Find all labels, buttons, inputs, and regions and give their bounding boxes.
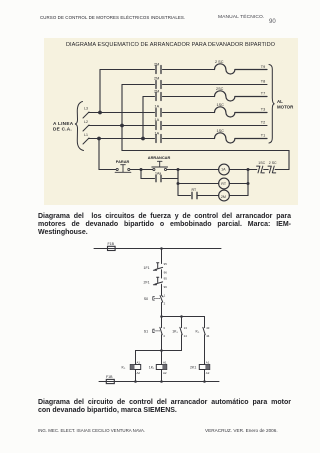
heater 1SC line6 [214, 133, 267, 143]
contact 2F1 [153, 277, 162, 285]
connector horizontal above coils [136, 350, 182, 352]
svg-text:14: 14 [184, 334, 188, 338]
coil 1K1 box [156, 365, 166, 370]
wire 1F1 to 2F1 [161, 270, 163, 278]
svg-text:F1B: F1B [108, 242, 115, 246]
svg-text:1A: 1A [154, 105, 159, 109]
contact 1A line6 [156, 135, 161, 143]
motor brace [269, 65, 275, 144]
svg-text:F1B: F1B [106, 375, 113, 379]
footer left [38, 428, 145, 433]
svg-text:2SC: 2SC [216, 87, 224, 91]
contact K5 aux [203, 317, 205, 365]
contact 1Aa bars [156, 175, 161, 181]
wire line6 L1 [88, 138, 214, 140]
arrancar bridge and stem [151, 161, 167, 167]
svg-text:2M: 2M [154, 90, 159, 94]
svg-text:RT: RT [191, 188, 196, 192]
contact 2M line1 [156, 66, 161, 74]
wire arrancar to coil 1A [166, 169, 218, 171]
svg-text:A1: A1 [163, 361, 167, 365]
contact RT bars [192, 192, 197, 198]
svg-text:A2: A2 [206, 371, 210, 375]
overload rung [248, 169, 289, 171]
wire 2F1 to S0 [161, 284, 163, 295]
coil outputs to bus [229, 170, 248, 196]
svg-text:1Aa: 1Aa [155, 172, 161, 176]
footer right [205, 428, 278, 433]
bottom rail F1B [99, 381, 219, 383]
wire line4 L3 [88, 112, 214, 114]
control rail to L2 [122, 126, 289, 170]
wire S0 down to junction [161, 302, 163, 316]
svg-text:96: 96 [164, 270, 168, 274]
coil 2K1 box [199, 365, 209, 370]
contact 1F1 [153, 263, 162, 271]
svg-text:96: 96 [164, 285, 168, 289]
svg-text:K₅: K₅ [122, 366, 126, 370]
parar button contacts [116, 168, 118, 170]
contact S1 start button [160, 317, 162, 351]
riser L1 to line3 [142, 97, 144, 139]
switch blade L2 [83, 125, 89, 131]
svg-text:1SC: 1SC [216, 129, 224, 133]
contact 1A line5 [156, 122, 161, 130]
svg-text:K₅: K₅ [196, 329, 200, 333]
caption 2 [38, 399, 291, 407]
svg-text:4: 4 [163, 334, 165, 338]
svg-text:1A: 1A [221, 168, 226, 172]
svg-text:43: 43 [206, 326, 210, 330]
caption 1 [38, 213, 291, 237]
svg-text:L1: L1 [84, 133, 88, 137]
svg-text:1F1: 1F1 [144, 266, 150, 270]
svg-text:A1: A1 [137, 361, 141, 365]
svg-text:S0: S0 [144, 297, 148, 301]
brace a linea [75, 102, 84, 151]
svg-text:13: 13 [184, 326, 188, 330]
wire line3 [143, 96, 215, 98]
svg-text:T3: T3 [260, 108, 264, 112]
svg-text:L2: L2 [84, 120, 88, 124]
svg-text:1K₁: 1K₁ [172, 329, 178, 333]
svg-text:1A: 1A [154, 131, 159, 135]
svg-text:3: 3 [163, 326, 165, 330]
top rail F1B [94, 248, 221, 250]
diagram 1 title [44, 42, 298, 48]
svg-text:L3: L3 [84, 106, 88, 110]
branch horizontal to aux contacts [162, 316, 205, 318]
svg-text:S1: S1 [144, 329, 148, 333]
contact 1K1 aux [180, 317, 182, 351]
wire line1 after contact [162, 69, 214, 71]
svg-text:2 SC: 2 SC [268, 161, 276, 165]
vertical to RT and 2M branches [177, 170, 179, 196]
wire line5 L2 to T2 [88, 125, 267, 127]
svg-text:A1: A1 [206, 361, 210, 365]
svg-text:RT: RT [221, 182, 227, 186]
switch blade L1 [83, 138, 89, 144]
svg-text:2: 2 [164, 301, 166, 305]
heater 1SC line4 [214, 107, 267, 117]
wire line2 to T8 [122, 84, 267, 86]
heater 2SC line1 [214, 64, 267, 74]
svg-text:2M: 2M [154, 77, 159, 81]
svg-text:1SC: 1SC [216, 103, 224, 107]
svg-text:PARAR: PARAR [115, 159, 129, 164]
svg-text:1A: 1A [154, 118, 159, 122]
svg-text:ARRANCAR: ARRANCAR [147, 155, 170, 160]
control tap from L1 [99, 139, 116, 170]
fuse F1B top [108, 246, 116, 250]
header right text [218, 15, 264, 20]
contact 1A line4 [156, 109, 161, 117]
svg-text:2K1: 2K1 [190, 366, 196, 370]
coil RT [218, 178, 229, 189]
contact S0 stop button [160, 295, 163, 302]
OL contact 2SC [268, 166, 276, 173]
svg-text:1: 1 [164, 293, 166, 297]
coil 1K1 wire [161, 351, 163, 382]
coil 2M [218, 190, 229, 201]
main vertical from rail [161, 249, 163, 264]
wire parar to arrancar [130, 169, 153, 171]
svg-text:2 SC: 2 SC [215, 60, 224, 64]
svg-text:44: 44 [206, 334, 210, 338]
riser L3 to line1 [99, 70, 101, 113]
svg-text:T7: T7 [260, 92, 264, 96]
S1 actuator [153, 329, 155, 332]
svg-text:1SC: 1SC [258, 161, 265, 165]
arrancar button contacts [152, 168, 154, 170]
svg-text:T2: T2 [260, 121, 264, 125]
svg-text:DE C.A.: DE C.A. [53, 126, 72, 131]
contact 2M line3 [156, 93, 161, 101]
svg-text:A2: A2 [163, 371, 167, 375]
junction dots diagram2 [134, 247, 206, 383]
page number 90 [269, 19, 276, 25]
header left text [40, 15, 185, 20]
svg-text:95: 95 [164, 262, 168, 266]
branch 2M coil wire [178, 195, 219, 197]
coil 2K1 wire [204, 370, 206, 382]
parar bridge and stem [115, 165, 131, 173]
riser L2 to line2 [121, 85, 123, 126]
wire line1 2M to T9 [100, 69, 155, 71]
svg-text:A2: A2 [137, 371, 141, 375]
coil 1A [218, 164, 229, 175]
svg-text:T8: T8 [260, 80, 264, 84]
coil K5 box [130, 365, 140, 370]
fuse F1B bottom [106, 379, 114, 383]
OL contact 1SC [256, 166, 264, 173]
svg-text:2M: 2M [220, 195, 225, 199]
branch 1Aa holding contact [141, 170, 178, 179]
switch blade L3 [83, 112, 89, 118]
contact 2M line2 [156, 81, 161, 89]
svg-text:1K₁: 1K₁ [149, 366, 155, 370]
junction dots [97, 111, 249, 185]
svg-text:T1: T1 [260, 134, 264, 138]
S0 actuator [153, 297, 155, 300]
svg-text:MOTOR: MOTOR [277, 105, 294, 110]
svg-text:2M: 2M [154, 63, 159, 67]
svg-text:AL: AL [277, 99, 283, 104]
svg-text:2F1: 2F1 [144, 280, 150, 284]
coil K5 wire [135, 351, 137, 382]
svg-text:T9: T9 [260, 65, 264, 69]
branch RT coil [178, 183, 219, 185]
diagram 1 box [44, 38, 298, 206]
svg-text:95: 95 [164, 277, 168, 281]
heater 2SC line3 [214, 91, 267, 101]
